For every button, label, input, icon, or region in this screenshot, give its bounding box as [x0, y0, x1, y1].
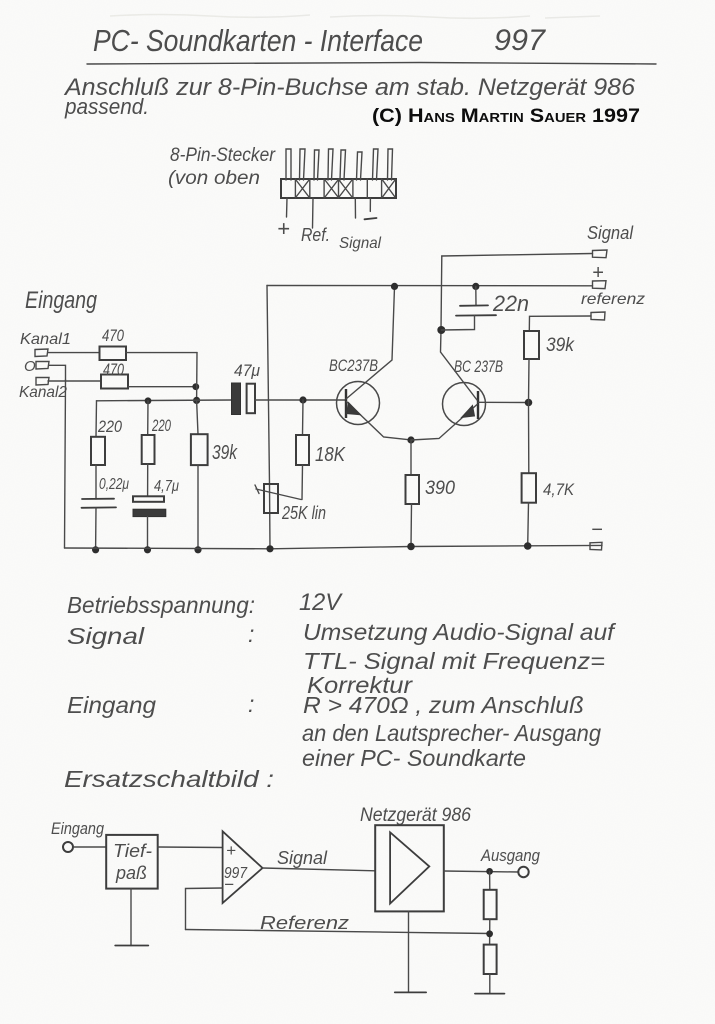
- op-amp - input label: [224, 875, 234, 894]
- connector label Ref.: [301, 225, 330, 245]
- wire Netzgeraet to ground: [408, 911, 410, 991]
- label 39k input: [212, 442, 238, 464]
- connector label +: [277, 216, 290, 241]
- transistor T2 collector lead: [441, 330, 478, 400]
- label Eingang (block diagram): [51, 819, 104, 838]
- wire 18K vertical top: [302, 400, 305, 435]
- svg-text:39k: 39k: [212, 442, 238, 464]
- connector X mark cell 2: [296, 180, 309, 197]
- faint bleed-through at top: [110, 15, 600, 19]
- wire branch3 R to bus: [197, 465, 199, 550]
- label 220 branch1: [97, 417, 122, 436]
- label Ersatzschaltbild :: [64, 766, 274, 792]
- node branch1 at bus: [92, 546, 99, 553]
- svg-text:Signal: Signal: [339, 235, 381, 252]
- connector pin 7: [373, 149, 379, 180]
- terminal input circle: [63, 842, 73, 852]
- connector pin 3: [314, 150, 319, 180]
- wire R470 upper to junction column: [126, 352, 197, 354]
- op-amp 997 triangle: [223, 831, 263, 903]
- op-amp label 997: [224, 865, 248, 882]
- wire Kanal1 to R 470 (upper): [48, 352, 100, 354]
- capacitor 4.7u electrolytic plate top (open): [133, 496, 164, 502]
- node 22n bottom tap: [437, 326, 445, 334]
- terminal minus: [590, 542, 602, 550]
- wire Tiefpass to ground: [130, 889, 132, 946]
- label BC237B T2: [454, 357, 503, 376]
- wire 390 to bus: [410, 504, 413, 547]
- connector pin 1: [286, 149, 291, 180]
- node junction on main line: [193, 397, 200, 404]
- node branch 2 tap: [145, 397, 152, 404]
- wire referenz to 39K: [529, 316, 591, 331]
- label Eingang: [25, 287, 98, 314]
- resistor 470 upper: [100, 347, 127, 361]
- wire 22n top connection: [475, 286, 477, 305]
- svg-text:8-Pin-Stecker: 8-Pin-Stecker: [170, 145, 276, 166]
- svg-text:einer PC- Soundkarte: einer PC- Soundkarte: [302, 745, 526, 771]
- svg-text:(von oben: (von oben: [168, 168, 260, 189]
- svg-text:BC 237B: BC 237B: [454, 357, 503, 376]
- capacitor 0.22u plates: [82, 499, 117, 508]
- node 4.7K at bus: [524, 542, 532, 550]
- label 4,7K: [543, 480, 575, 499]
- potentiometer 25K body: [264, 484, 278, 513]
- label 220 branch2: [151, 416, 171, 435]
- svg-text:−: −: [591, 519, 603, 541]
- connector pin 4: [328, 149, 333, 180]
- svg-text:470: 470: [102, 326, 124, 345]
- label 390: [425, 478, 455, 499]
- text Korrektur: [307, 672, 413, 698]
- svg-text:Eingang: Eingang: [25, 287, 98, 314]
- wire feedback from - input: [186, 888, 223, 930]
- label 470 upper: [102, 326, 124, 345]
- svg-text:O: O: [24, 358, 36, 375]
- block Netzgeraet 986: [375, 825, 444, 911]
- svg-text:Netzgerät 986: Netzgerät 986: [360, 805, 471, 826]
- svg-text:TTL- Signal mit Frequenz=: TTL- Signal mit Frequenz=: [303, 648, 605, 674]
- potentiometer wiper arrow: [255, 485, 301, 500]
- svg-text:(C) Hans Martin Sauer 1997: (C) Hans Martin Sauer 1997: [372, 106, 640, 127]
- svg-text:997: 997: [494, 24, 546, 57]
- svg-text:Kanal1: Kanal1: [20, 331, 71, 348]
- connector pin 8: [388, 149, 393, 180]
- terminal referenz: [591, 312, 605, 320]
- wire Referenz line: [186, 930, 490, 934]
- wire Tiefpass to op-amp: [158, 846, 223, 849]
- svg-text:paß: paß: [115, 863, 147, 883]
- connector body: [281, 179, 396, 198]
- ground bus bottom: [65, 545, 603, 548]
- amp triangle inside Netzgeraet: [390, 832, 429, 903]
- label Signal :: [67, 621, 254, 649]
- wire 47u to T1 base: [255, 399, 346, 401]
- subtitle line 2: passend.: [64, 94, 149, 119]
- svg-text:Tief-: Tief-: [113, 841, 152, 861]
- wire rail-to-pot vertical: [267, 286, 270, 549]
- transistor T1 base bar: [345, 389, 347, 418]
- wire node down to 4.7K: [528, 403, 530, 474]
- resistor divider R2: [484, 945, 497, 974]
- svg-text:18K: 18K: [315, 444, 346, 466]
- node T1 collector at + bus: [391, 283, 398, 290]
- wire R1 to referenz node: [489, 919, 491, 944]
- wire branch1 R to cap: [95, 465, 97, 499]
- transistor T1 emitter lead with arrow: [347, 402, 412, 440]
- connector lead Signal: [354, 198, 356, 218]
- wire branch1 cap to ground bus: [95, 508, 97, 550]
- wire branch1 vertical top: [95, 401, 98, 437]
- node branch2 at bus: [144, 546, 151, 553]
- terminal Kanal1: [35, 349, 48, 357]
- label BC237B T1: [329, 356, 378, 375]
- label 4,7u: [154, 478, 179, 495]
- svg-text:+: +: [277, 216, 290, 241]
- value 12V: [299, 589, 343, 616]
- svg-text:PC- Soundkarten - Interface: PC- Soundkarten - Interface: [93, 23, 423, 58]
- connector pin 2: [300, 149, 306, 180]
- text TTL- Signal mit Frequenz=: [303, 648, 605, 674]
- resistor 39K right: [524, 331, 539, 359]
- resistor 470 lower: [101, 375, 128, 389]
- resistor 39k input: [191, 434, 208, 465]
- label Ausgang: [480, 846, 540, 865]
- label Betriebsspannung:: [67, 592, 255, 618]
- label referenz: [581, 291, 645, 308]
- node referenz tap: [486, 930, 493, 937]
- wire T2 base to right column: [478, 401, 528, 403]
- svg-text:0,22μ: 0,22μ: [99, 476, 129, 493]
- text R > 470 Ohm, zum Anschluss: [303, 692, 584, 718]
- wire middle terminal to left rail: [49, 365, 66, 380]
- svg-text:220: 220: [151, 416, 171, 435]
- node junction of both 470s: [192, 383, 199, 390]
- label 22n: [492, 291, 529, 316]
- label 0,22u: [99, 476, 129, 493]
- connector cell dividers: [295, 179, 381, 198]
- terminal Kanal2: [36, 378, 49, 386]
- svg-text:Ref.: Ref.: [301, 225, 330, 245]
- transistor T2 BC237B circle: [443, 383, 486, 426]
- wire tap down to divider R1: [489, 871, 491, 889]
- svg-text:+: +: [226, 841, 236, 860]
- resistor 220 (branch1): [91, 437, 105, 465]
- svg-text:referenz: referenz: [581, 291, 645, 308]
- node common emitter: [407, 436, 414, 443]
- label 39k right: [546, 335, 575, 356]
- connector lead Ref: [312, 198, 315, 228]
- capacitor 47u plate right (open): [247, 384, 255, 414]
- wire common emitter down to 390: [410, 440, 412, 475]
- svg-text:4,7μ: 4,7μ: [154, 478, 179, 495]
- terminal Ausgang circle: [518, 867, 528, 877]
- subtitle line 1: Anschluss zur 8-Pin-Buchse am stab. Netzgeraet 986: [63, 74, 636, 101]
- wire branch3 vertical top: [197, 400, 198, 434]
- label Signal (output, top right): [587, 223, 634, 243]
- resistor divider R1: [484, 890, 497, 919]
- wire 4.7K to bus: [527, 503, 530, 546]
- ground (Tiefpass): [115, 945, 148, 947]
- svg-text:Betriebsspannung:: Betriebsspannung:: [67, 592, 255, 618]
- wire input to Tiefpass: [74, 846, 107, 848]
- label Referenz: [260, 913, 349, 933]
- svg-text:47μ: 47μ: [234, 361, 261, 380]
- title underline: [87, 63, 656, 65]
- wire branch2 vertical top: [147, 401, 149, 435]
- svg-text:4,7K: 4,7K: [543, 480, 575, 499]
- svg-text::: :: [248, 621, 254, 647]
- wire op-amp to Netzgeraet: [263, 868, 376, 871]
- connector pin 5: [340, 150, 346, 180]
- svg-text:−: −: [224, 875, 234, 894]
- svg-text:Signal: Signal: [67, 623, 145, 649]
- label 25K lin: [281, 503, 326, 523]
- transistor T2 base bar: [477, 391, 479, 419]
- node 390 at bus: [407, 543, 415, 551]
- wire 18K to wiper: [301, 465, 304, 500]
- svg-text:Referenz: Referenz: [260, 913, 349, 933]
- supply rail top (+ bus): [267, 285, 593, 287]
- connector X mark cell 5: [339, 180, 352, 197]
- capacitor 22n plates: [456, 305, 496, 315]
- svg-text:Eingang: Eingang: [51, 819, 104, 838]
- svg-text:Signal: Signal: [277, 848, 328, 868]
- label Netzgeraet 986: [360, 805, 471, 826]
- wire Signal line horizontal: [442, 254, 593, 257]
- label + (supply terminal): [592, 262, 604, 284]
- svg-text:Kanal2: Kanal2: [19, 384, 67, 401]
- text Umsetzung Audio-Signal auf: [303, 619, 617, 645]
- wire Kanal2 to R 470 (lower): [48, 380, 101, 382]
- connector label minus: [365, 218, 377, 219]
- svg-text:220: 220: [97, 417, 122, 436]
- wire branch2 R to cap: [147, 464, 149, 496]
- wire 39K to node: [528, 359, 531, 403]
- wire Signal line vertical down to 22n node: [440, 256, 443, 330]
- label Eingang :: [67, 691, 254, 718]
- title number 997: [494, 24, 546, 57]
- connector lead minus: [369, 198, 371, 211]
- text an den Lautsprecher-Ausgang: [302, 720, 601, 746]
- svg-text:470: 470: [103, 360, 124, 379]
- node pot at bus: [266, 545, 273, 552]
- transistor T1 BC237B circle: [337, 382, 380, 425]
- wire junction column down to main line: [196, 353, 198, 401]
- label minus (bottom right terminal): [591, 519, 603, 541]
- ground (divider): [475, 993, 504, 995]
- connector X mark cell 8: [383, 180, 396, 197]
- wire 22n bottom connection: [441, 316, 474, 330]
- connector label Signal: [339, 235, 381, 252]
- svg-text:25K lin: 25K lin: [281, 503, 326, 523]
- label Kanal2: [19, 384, 67, 401]
- svg-text:R > 470Ω , zum Anschluß: R > 470Ω , zum Anschluß: [303, 692, 584, 718]
- svg-text:12V: 12V: [299, 589, 343, 616]
- terminal Signal output: [593, 250, 608, 258]
- copyright printed text: [372, 106, 640, 127]
- svg-text:Umsetzung Audio-Signal auf: Umsetzung Audio-Signal auf: [303, 619, 617, 645]
- resistor 18K: [296, 435, 309, 465]
- connector X mark cell 4: [325, 180, 338, 197]
- text einer PC-Soundkarte: [302, 745, 526, 771]
- wire main horizontal line left part: [97, 399, 233, 402]
- resistor 220 (branch2): [142, 435, 155, 464]
- node 18K tap: [299, 396, 306, 403]
- resistor 4.7K: [522, 473, 536, 503]
- wire left rail vertical (O terminal down to ground bus): [65, 380, 66, 548]
- label Signal (block diagram): [277, 848, 328, 868]
- node branch3 at bus: [194, 546, 201, 553]
- label Kanal1: [20, 331, 71, 348]
- label 470 lower: [103, 360, 124, 379]
- ground (Netzgeraet): [395, 991, 426, 993]
- terminal + supply: [593, 281, 607, 289]
- label 18K: [315, 444, 346, 466]
- svg-text:Ersatzschaltbild :: Ersatzschaltbild :: [64, 766, 274, 792]
- wire Netzgeraet to Ausgang: [444, 871, 518, 872]
- transistor T2 emitter lead with arrow: [411, 405, 477, 441]
- label Tief- pass: [113, 841, 152, 883]
- node 22n top tap on + bus: [472, 283, 479, 290]
- label O (middle terminal): [24, 358, 36, 375]
- label 47u: [234, 361, 261, 380]
- wire R2 to ground: [489, 974, 491, 994]
- block Tiefpass: [106, 835, 158, 889]
- transistor T1 collector lead: [346, 287, 395, 399]
- svg-text:22n: 22n: [492, 291, 529, 316]
- svg-text:BC237B: BC237B: [329, 356, 378, 375]
- svg-text:Ausgang: Ausgang: [480, 846, 540, 865]
- paper texture: [0, 0, 1, 1]
- connector pin 6: [357, 152, 363, 180]
- wire branch2 cap to bus: [147, 517, 149, 550]
- connector label 8-Pin-Stecker: [168, 145, 276, 189]
- svg-text:39k: 39k: [546, 335, 575, 356]
- svg-text:Signal: Signal: [587, 223, 634, 243]
- title: PC - Soundkarten - Interface: [93, 23, 423, 58]
- svg-text:Eingang: Eingang: [67, 692, 156, 718]
- connector lead +: [286, 198, 289, 217]
- svg-text:an den Lautsprecher- Ausgang: an den Lautsprecher- Ausgang: [302, 720, 601, 746]
- op-amp + input label: [226, 841, 236, 860]
- node right column mid: [525, 399, 533, 407]
- terminal middle: [36, 362, 49, 370]
- capacitor 4.7u plate bottom (filled): [133, 509, 166, 516]
- wire R470 lower to junction: [128, 386, 196, 388]
- capacitor 47u plate left (filled): [232, 383, 241, 415]
- resistor 390: [406, 475, 420, 504]
- svg-text:passend.: passend.: [64, 94, 149, 119]
- node output divider tap: [486, 868, 493, 875]
- svg-text:390: 390: [425, 478, 455, 499]
- svg-text::: :: [248, 691, 254, 717]
